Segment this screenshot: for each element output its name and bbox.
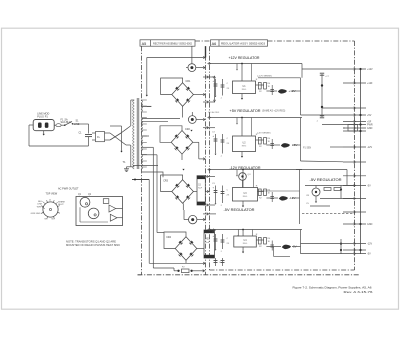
junction rail 4 — [242, 229, 244, 231]
regulator IC U2 — [233, 136, 256, 152]
junction -12V tie b — [340, 249, 342, 251]
wire output bus — [360, 69, 362, 254]
leader line BLK — [43, 202, 46, 205]
svg-text:A6: A6 — [212, 42, 217, 46]
wire inside heatsink — [79, 207, 81, 222]
junction bus 15 — [359, 223, 361, 225]
wire rail drop 1 — [241, 64, 243, 82]
wire CR2 + output — [193, 141, 199, 143]
wire Q1 to node — [292, 90, 301, 92]
wire rail drop 2b — [236, 118, 238, 124]
wire return bottom — [29, 145, 89, 147]
wire bracket CR1 — [161, 78, 183, 95]
wire s1 gnd stub — [322, 107, 343, 109]
wire output stub 14 — [343, 211, 366, 213]
svg-text:(+5V SENSE): (+5V SENSE) — [257, 133, 271, 135]
A5 assembly border bottom — [138, 274, 361, 276]
wire rail drop 2 — [241, 118, 243, 137]
wire rail 1 — [208, 63, 303, 65]
leader line SPARE — [56, 202, 58, 204]
wire output stub 13 — [343, 198, 366, 200]
wire primary bottom lead — [131, 166, 134, 168]
polarity arrow s3 — [182, 169, 184, 171]
svg-text:CR1: CR1 — [186, 80, 191, 83]
wire to pass transistor Q3 — [266, 197, 278, 199]
ground arrow 3 — [242, 201, 244, 206]
wire A5 top rail — [147, 57, 205, 59]
heat sink assembly outline — [76, 197, 123, 226]
ground arrow cap 4 — [215, 249, 217, 250]
bridge rectifier CR3 — [172, 180, 194, 204]
capacitor C11 — [215, 79, 217, 96]
wire FL1 out bottom — [105, 139, 111, 141]
wire crossing divider s1a — [203, 76, 215, 78]
assembly A6 title block — [211, 40, 268, 46]
wire rail drop 4c — [251, 230, 253, 237]
pass transistor Q2 — [281, 143, 290, 147]
svg-text:P1 SEN: P1 SEN — [303, 148, 312, 150]
svg-text:REG: REG — [243, 196, 248, 198]
junction bus 6 — [359, 123, 361, 125]
wire plug stub down — [43, 131, 45, 135]
wire lug1 to edge — [116, 208, 123, 210]
wire T1 common heavy — [132, 179, 149, 181]
resistor R21 — [258, 138, 261, 145]
wire bias bottom stub — [310, 205, 330, 207]
capacitor C34 — [271, 192, 273, 202]
divider dense segment — [205, 46, 207, 57]
junction bus 4 — [359, 114, 361, 116]
wire crossover to primary top — [121, 126, 131, 133]
wire C1A to divider — [196, 67, 205, 69]
wire box to resistors 2 — [256, 139, 264, 141]
wire s3 top rail to bias — [296, 169, 347, 171]
wire rail 3 — [208, 169, 303, 171]
svg-text:CR3: CR3 — [163, 180, 168, 183]
wire output stub 12 — [343, 185, 366, 187]
junction rail 2 — [241, 117, 243, 119]
wire -12V out — [301, 243, 344, 245]
capacitor C21 — [215, 134, 217, 154]
wire to pass transistor Q2 — [266, 144, 280, 146]
transformer T1 primary winding — [133, 100, 135, 169]
wire FL1 out top — [105, 132, 111, 134]
wire fuse to switch S1 — [61, 124, 64, 126]
wire shield dashed — [302, 213, 355, 215]
wire CR3 + output — [193, 191, 197, 193]
transformer T1 core line 1 — [136, 98, 138, 169]
resistor R12 — [264, 83, 267, 90]
wire rail drop 3c — [253, 170, 255, 188]
ground arrow cap 3 — [215, 203, 217, 204]
wire bias vertical — [340, 186, 342, 199]
wire bracket CR4 — [164, 232, 186, 249]
wire rail 4 — [208, 229, 303, 231]
bridge rectifier CR2 — [171, 131, 193, 155]
regulator IC U3 — [233, 188, 258, 202]
regulator IC U4 — [234, 236, 256, 247]
svg-text:AC PWR OUTLET: AC PWR OUTLET — [58, 187, 79, 190]
ground T1 primary — [127, 166, 131, 168]
junction T1 common — [134, 179, 136, 181]
svg-text:RECTIFIER ASSEMBLY 05952-6002: RECTIFIER ASSEMBLY 05952-6002 — [153, 42, 193, 45]
bridge rectifier CR1 — [172, 83, 194, 107]
wire A5 bottom rail — [149, 262, 205, 264]
wire down to C1 — [88, 124, 90, 134]
svg-text:WHT: WHT — [37, 207, 42, 209]
wire rail drop 1c — [251, 64, 253, 82]
filter capacitor C4 — [204, 230, 215, 258]
resistor R32 — [264, 189, 267, 196]
wire to pass transistor Q4 — [266, 246, 281, 248]
switch S1 blade — [65, 122, 72, 126]
wire vertical at T1 — [121, 126, 123, 151]
wire Q3A to U3 — [242, 180, 244, 187]
wire switch to filter — [73, 123, 89, 125]
wire crossing divider s3b — [203, 204, 215, 206]
capacitor C22 — [222, 134, 224, 154]
feed-through capacitor C2A — [188, 116, 196, 124]
ground arrow cap 2 — [215, 154, 217, 155]
wire crossing divider s3a — [203, 176, 215, 178]
wire rail drop 4 — [242, 230, 244, 237]
resistor R31 — [258, 189, 261, 196]
svg-text:P/O A6 REF: P/O A6 REF — [208, 111, 220, 114]
svg-text:REG: REG — [243, 243, 248, 245]
leader line GRN — [41, 212, 44, 214]
wire output stub 17 — [343, 249, 366, 251]
fuse F1 — [56, 124, 61, 127]
capacitor C14 — [271, 85, 273, 95]
wire CR1 - output down — [182, 106, 184, 117]
resistor R42 — [264, 238, 267, 245]
wire return left vertical — [28, 125, 30, 146]
transformer T1 core line 2 — [138, 98, 140, 169]
svg-text:+5V: +5V — [367, 114, 372, 117]
wire s4 sense down — [272, 247, 274, 257]
wire rail drop 3 — [242, 170, 244, 188]
svg-text:+12F: +12F — [367, 82, 373, 85]
wire Q4 out — [292, 246, 301, 248]
svg-text:LINE: LINE — [74, 123, 80, 126]
wire s1 mid rail — [258, 77, 301, 79]
wire Q2 to node — [292, 144, 301, 146]
svg-text:-5V: -5V — [367, 253, 371, 256]
svg-text:(SAME AS +12V REG): (SAME AS +12V REG) — [262, 110, 286, 113]
connector J1 key — [49, 208, 51, 210]
junction bias a — [340, 188, 342, 190]
wire fuse to divider — [193, 270, 205, 272]
wire C2A up — [191, 112, 193, 116]
wire C1A up — [191, 58, 193, 64]
transistor Q3A — [239, 173, 247, 181]
wire rail drop 3b — [236, 170, 238, 176]
resistor R51 — [324, 188, 331, 191]
capacitor C32 — [222, 186, 224, 204]
wire rail 2 — [208, 117, 303, 119]
resistor R11 — [258, 83, 261, 90]
wire feeder 2 vertical — [148, 180, 150, 264]
wire s3 output vertical — [299, 170, 301, 225]
wire s1 output vertical — [300, 78, 302, 115]
svg-text:REG: REG — [242, 89, 247, 91]
bridge rectifier CR4 — [175, 237, 197, 261]
wire sense vertical with arrows — [214, 76, 216, 102]
pass transistor Q4 — [282, 245, 291, 249]
wire -5V out — [301, 253, 344, 255]
wire to pass transistor Q1 — [266, 90, 277, 92]
wire to FL1 top — [92, 132, 96, 134]
wire -12V tie — [340, 239, 342, 254]
junction bus 8 — [359, 130, 361, 132]
capacitor C42 — [222, 234, 224, 249]
wire to primary bottom — [126, 144, 131, 146]
svg-text:+12V REGULATOR: +12V REGULATOR — [229, 56, 260, 60]
capacitor C24 — [271, 139, 273, 149]
wire crossing divider s4a — [210, 229, 217, 231]
wire bias feed drop — [346, 170, 348, 186]
wire output stub 7 — [343, 127, 366, 129]
wire CR2 - down — [181, 154, 183, 160]
wire U3 sense out — [258, 190, 300, 192]
wire rail drop 1b — [236, 64, 238, 70]
wire output stub 6 — [343, 124, 366, 126]
wire rail drop to header — [191, 47, 193, 58]
wire C1A left stub — [186, 67, 188, 69]
feed-through capacitor C4A — [189, 215, 197, 223]
capacitor C7 plates — [320, 72, 324, 74]
svg-text:CR: CR — [306, 195, 310, 197]
svg-text:A5: A5 — [142, 42, 147, 46]
wire output stub 4 — [343, 114, 366, 116]
wire primary top lead — [131, 99, 134, 101]
pass transistor Q2 case — [88, 208, 99, 219]
capacitor C41 bottom A6 — [222, 258, 224, 266]
wire output stub 10 — [343, 161, 366, 163]
svg-text:Rev. A 3-15-76: Rev. A 3-15-76 — [344, 290, 373, 294]
wire output stub 3 — [343, 107, 366, 109]
junction bus 1 — [359, 68, 361, 70]
AC line plug P1 — [33, 120, 54, 131]
A6 assembly border top — [268, 40, 355, 42]
wire lug2 to edge — [117, 217, 123, 219]
wire box to resistors 1 — [256, 84, 264, 86]
jumper loop W1 — [348, 125, 358, 132]
wire Q5 top — [315, 186, 317, 189]
svg-text:-5V REGULATOR: -5V REGULATOR — [310, 178, 343, 182]
plug prong 1 — [38, 123, 42, 128]
ground arrow 4 — [242, 247, 244, 252]
svg-text:CR2: CR2 — [185, 128, 190, 131]
wire output stub 18 — [343, 253, 366, 255]
svg-text:NC: NC — [52, 219, 56, 221]
junction bus 17 — [359, 249, 361, 251]
wire crossover 1 — [110, 133, 126, 145]
svg-text:Figure 7-2. Schematic Diagram: Figure 7-2. Schematic Diagram, Power Sup… — [293, 285, 372, 289]
wire s2 output vertical — [300, 118, 302, 162]
wire rail drop 2c — [251, 118, 253, 137]
svg-text:REG: REG — [242, 145, 247, 147]
wire C4A left — [184, 219, 189, 221]
wire output stub 9 — [343, 146, 366, 148]
wire sense stub — [330, 146, 343, 148]
capacitor C3 end caps — [197, 176, 205, 179]
wire C2A to divider — [196, 119, 205, 121]
A5 assembly border top stub — [195, 40, 211, 42]
capacitor C12 — [222, 79, 224, 96]
svg-text:LINE: LINE — [37, 204, 42, 206]
A6 assembly border right — [354, 41, 356, 270]
pass transistor Q3 — [279, 196, 288, 200]
wire top to T1 primary — [110, 125, 122, 127]
wire crossover 2 — [110, 133, 121, 140]
wire output stub 16 — [343, 243, 366, 245]
transformer T1 secondary windings — [141, 100, 143, 170]
wire crossing divider s3c — [203, 213, 216, 215]
pass transistor Q1 — [278, 89, 287, 93]
wire tap to CR1 — [147, 105, 152, 107]
wire feeder 4 vertical — [156, 155, 158, 233]
svg-text:GRN GND: GRN GND — [31, 213, 41, 215]
A6 assembly border bottom — [210, 269, 355, 271]
A5 assembly border left — [141, 46, 143, 274]
wire s1 right drop — [301, 64, 303, 78]
wire box to resistors 3 — [258, 191, 264, 193]
svg-text:GND: GND — [367, 127, 373, 130]
ground arrow cap 1 — [215, 96, 217, 97]
capacitor C44 — [271, 241, 273, 251]
filter capacitor C3 — [197, 176, 205, 205]
wire bias rail top — [305, 185, 355, 187]
wire s2 gnd out — [301, 160, 344, 163]
wire feeder 3 vertical — [152, 147, 154, 268]
A6 assembly border left — [209, 46, 211, 270]
connector J1 pin ticks — [58, 211, 60, 214]
wire C3 to divider — [205, 191, 209, 193]
transistor Q5 — [312, 188, 320, 196]
junction -12V tie a — [340, 243, 342, 245]
wire C4A to divider — [197, 219, 205, 221]
svg-text:CR4: CR4 — [166, 236, 171, 239]
capacitor C40 bottom A6 — [215, 258, 217, 266]
svg-text:(+12V SENSE): (+12V SENSE) — [257, 76, 272, 78]
assembly A5 title block — [140, 40, 195, 46]
fuse F2 — [177, 270, 179, 272]
junction rail 1 — [241, 63, 243, 65]
wire +12V out — [302, 68, 343, 70]
wire CR4 - down — [185, 260, 187, 263]
svg-text:+12V: +12V — [367, 68, 373, 71]
junction s1 a — [321, 84, 323, 86]
capacitor C4 end caps — [204, 230, 215, 233]
wire CR3 - down — [182, 203, 184, 210]
wire s1 pwr gnd stub — [322, 124, 343, 126]
wire box to resistors 4 — [256, 239, 263, 241]
plug prong 2 — [45, 123, 49, 128]
wire Q5 bottom — [315, 196, 317, 201]
svg-text:+5V REGULATOR: +5V REGULATOR — [230, 109, 261, 113]
transformer T1 secondary taps — [141, 99, 147, 101]
resistor R41 — [258, 238, 261, 245]
wire bracket CR3 — [161, 175, 183, 192]
svg-text:REGULATOR ASSY 05952-6003: REGULATOR ASSY 05952-6003 — [221, 42, 266, 45]
ground arrow 1 — [241, 94, 243, 99]
svg-text:-5V REGULATOR: -5V REGULATOR — [224, 208, 255, 212]
wire crossing divider s1b — [203, 101, 215, 103]
wire fuse rail — [153, 267, 174, 269]
wire CR1 + output — [193, 94, 205, 96]
svg-text:TOP VIEW: TOP VIEW — [46, 193, 58, 196]
svg-text:PLUG P1: PLUG P1 — [37, 115, 48, 118]
connector J1 outline — [43, 202, 58, 217]
ground arrow 2 — [241, 152, 243, 157]
capacitor C8 plates — [320, 115, 324, 117]
wire bias rail bottom — [320, 198, 355, 200]
wire CR4 + output — [197, 248, 204, 250]
wire output stub 1 — [343, 68, 366, 70]
resistor R1 heat sink — [103, 199, 109, 204]
svg-text:GND: GND — [367, 223, 373, 226]
polarity arrow s2 — [190, 130, 192, 132]
wire rail drop 4b — [237, 230, 239, 236]
capacitor C41 — [215, 234, 217, 249]
junction s1 b — [321, 106, 323, 108]
regulator IC U1 — [233, 81, 256, 94]
wire C1 to return — [88, 137, 90, 146]
wire feeder 1 vertical — [146, 58, 148, 96]
wire output stub 5 — [343, 121, 366, 123]
leader line WHT — [42, 207, 45, 209]
pass transistor Q1 case — [80, 197, 90, 207]
svg-text:-5V: -5V — [367, 185, 371, 188]
terminal lug 1 — [109, 205, 116, 212]
svg-text:SPARE: SPARE — [58, 201, 66, 204]
wire plug to return — [29, 124, 33, 126]
wire s1 filter vertical — [321, 74, 323, 117]
wire crossing divider s2a — [203, 127, 215, 129]
svg-text:-12V: -12V — [367, 243, 372, 246]
feed-through capacitor C1A — [188, 64, 196, 72]
wire s4 output vertical — [300, 230, 302, 254]
wire plug to fuse F1 — [54, 124, 56, 126]
wire +5V out — [301, 114, 344, 116]
svg-text:-12V: -12V — [367, 146, 372, 149]
capacitor C31 — [215, 186, 217, 204]
wire output stub 2 — [343, 82, 366, 84]
wire Q3 out — [292, 197, 300, 199]
line filter FL1 — [96, 132, 105, 142]
wire output stub 15 — [343, 223, 366, 225]
resistor R22 — [264, 138, 267, 145]
wire staircase tap routing — [142, 118, 180, 120]
terminal lug 2 — [110, 214, 117, 221]
svg-text:NEUT: NEUT — [58, 204, 64, 206]
svg-text:NC: NC — [45, 219, 49, 221]
svg-text:MOUNTED ON REAR CHASSIS HEAT S: MOUNTED ON REAR CHASSIS HEAT SINK — [66, 244, 120, 247]
resistor R52 — [334, 188, 341, 191]
wire output stub 8 — [343, 130, 366, 132]
wire to FL1 bottom — [92, 139, 96, 141]
wire bracket CR2 — [160, 126, 182, 143]
junction rail 3 — [242, 169, 244, 171]
wire output stub 11 — [343, 175, 366, 177]
capacitor C1 plates — [85, 134, 92, 136]
A5/A6 assembly divider — [205, 46, 207, 274]
